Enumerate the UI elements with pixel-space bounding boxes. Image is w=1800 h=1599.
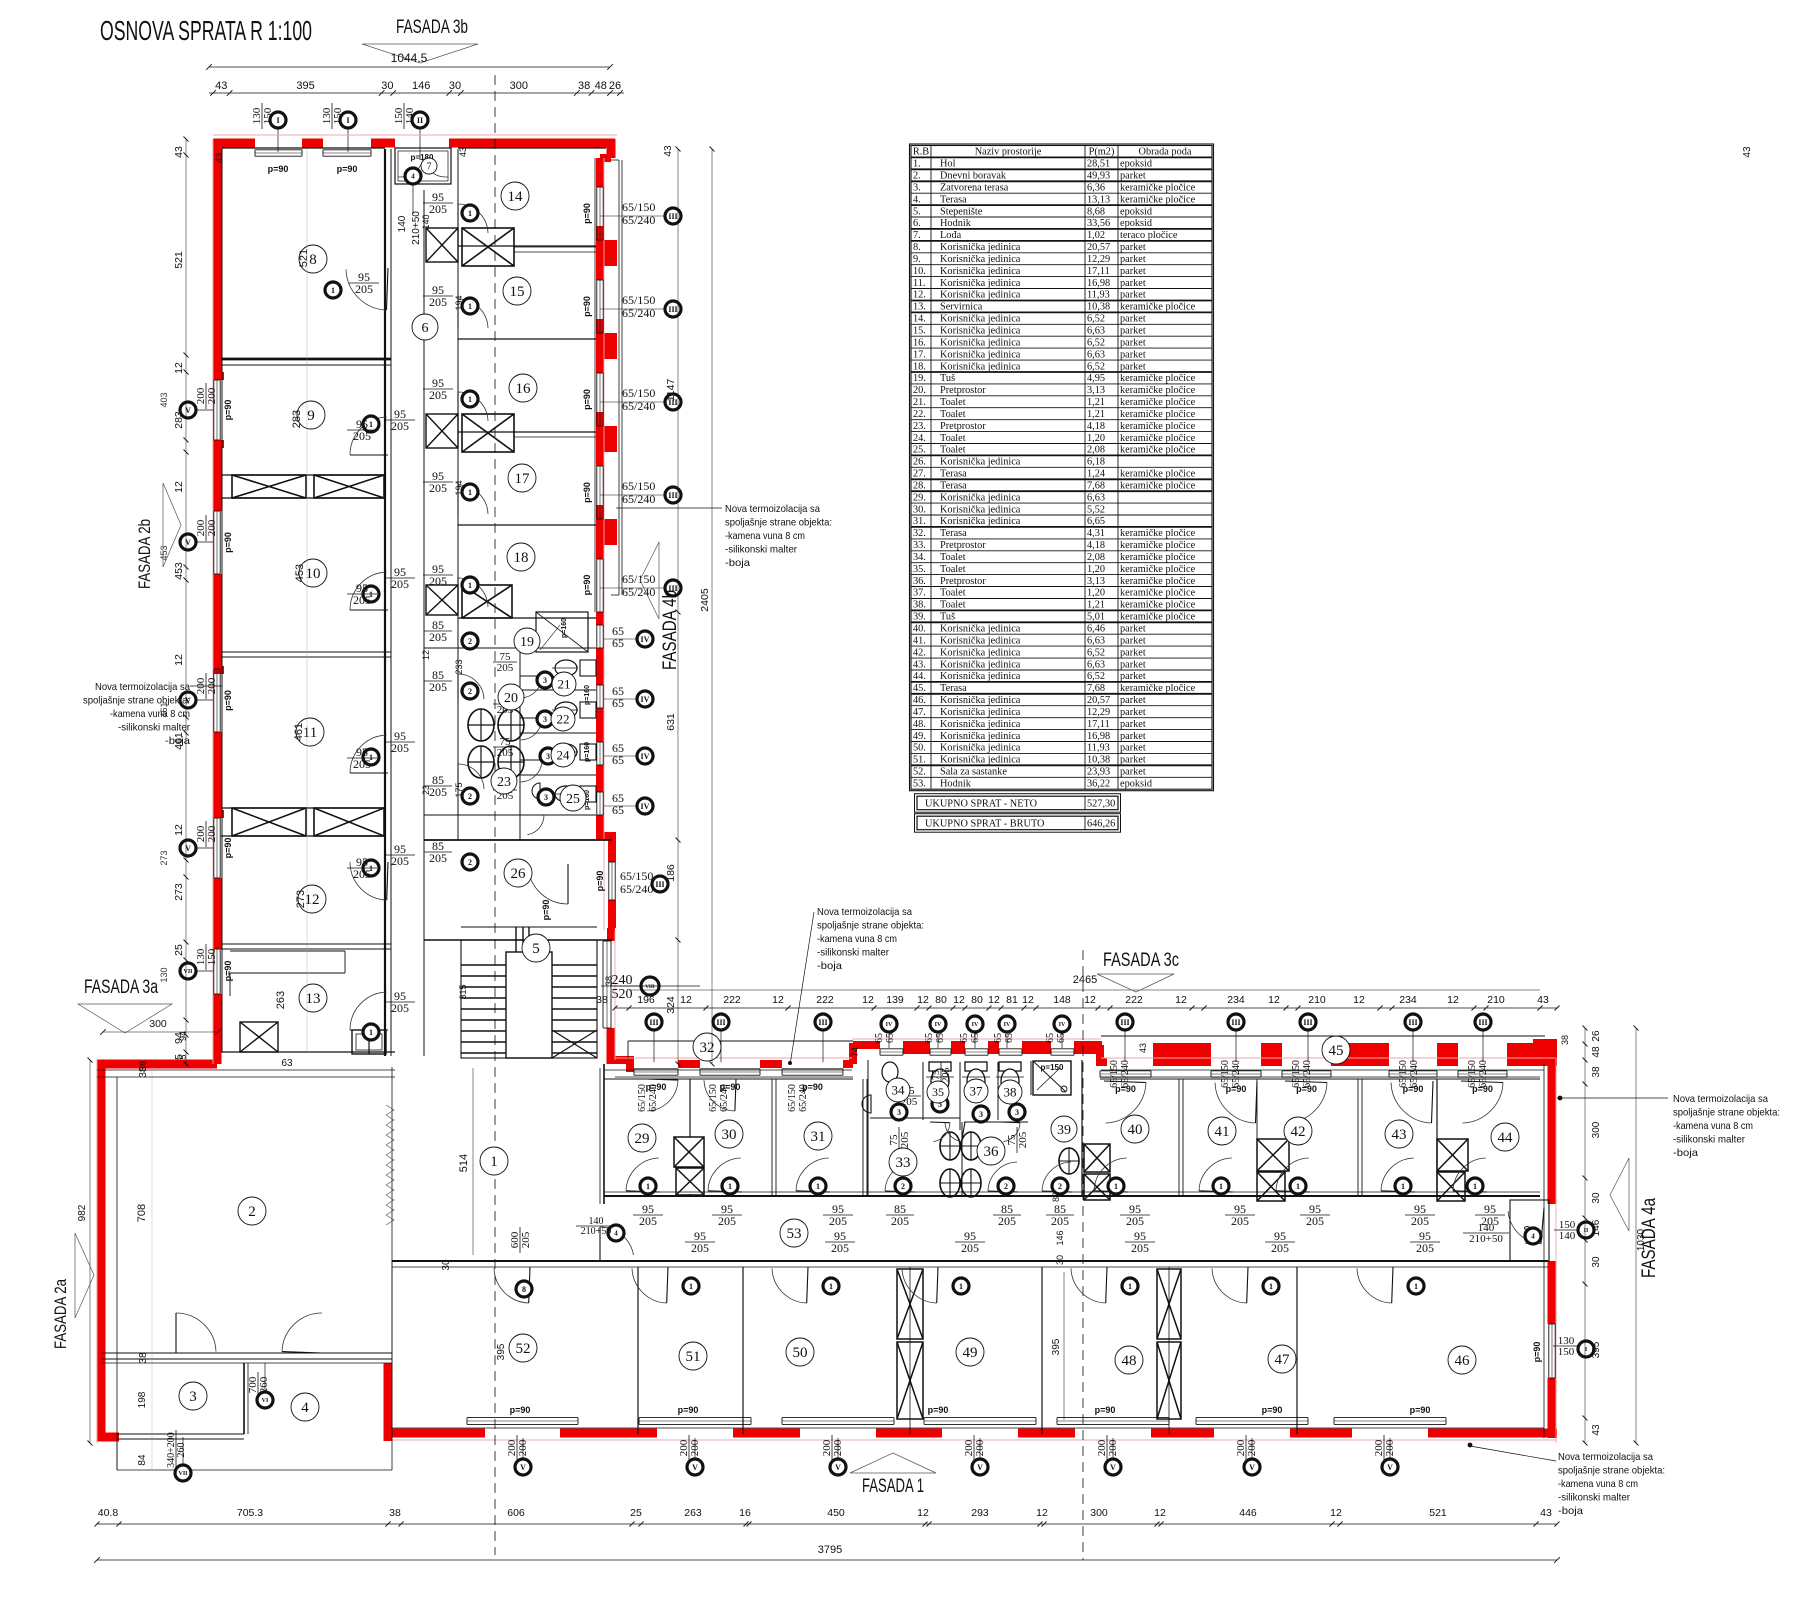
svg-text:521: 521: [173, 251, 185, 269]
wing top dim row: [615, 1007, 1557, 1009]
doors terrace 45 / east rooms: [1106, 1083, 1147, 1124]
svg-text:keramičke pločice: keramičke pločice: [1120, 564, 1196, 575]
svg-text:65/240: 65/240: [622, 213, 655, 227]
svg-text:6,52: 6,52: [1087, 671, 1105, 682]
svg-text:keramičke pločice: keramičke pločice: [1120, 433, 1196, 444]
svg-text:-kamena vuna 8 cm: -kamena vuna 8 cm: [817, 933, 897, 945]
svg-text:VII: VII: [178, 1471, 188, 1477]
svg-text:V: V: [692, 1463, 698, 1472]
svg-text:parket: parket: [1120, 314, 1146, 325]
door room23: [458, 764, 484, 789]
svg-text:205: 205: [1131, 1241, 1149, 1255]
svg-text:Hodnik: Hodnik: [940, 779, 972, 790]
svg-text:p=90: p=90: [582, 296, 592, 317]
svg-text:3795: 3795: [818, 1544, 842, 1556]
window marks III IV row: [646, 1014, 662, 1030]
window mark I: [270, 112, 286, 128]
svg-text:III: III: [1231, 1018, 1240, 1027]
svg-text:FASADA 1: FASADA 1: [862, 1476, 924, 1497]
room2/34 divider wall: [101, 1352, 392, 1354]
svg-text:1: 1: [490, 1154, 498, 1170]
door4 upper: [405, 168, 421, 184]
svg-text:FASADA 3b: FASADA 3b: [396, 17, 468, 38]
svg-text:Pretprostor: Pretprostor: [940, 421, 986, 432]
svg-text:16: 16: [516, 381, 532, 397]
svg-text:Nova termoizolacija sa: Nova termoizolacija sa: [95, 681, 190, 693]
svg-text:40: 40: [1128, 1122, 1143, 1138]
room5 circle: [522, 934, 550, 962]
svg-text:Korisnička jedinica: Korisnička jedinica: [940, 731, 1021, 742]
svg-text:Toalet: Toalet: [940, 445, 966, 456]
svg-text:6,52: 6,52: [1087, 314, 1105, 325]
svg-text:30: 30: [1055, 1255, 1065, 1265]
svg-text:31.: 31.: [913, 516, 926, 527]
svg-text:12,29: 12,29: [1087, 254, 1110, 265]
svg-text:205: 205: [718, 1214, 736, 1228]
svg-text:2: 2: [468, 637, 472, 646]
svg-text:273: 273: [159, 850, 169, 865]
svg-text:1: 1: [369, 420, 373, 429]
svg-text:UKUPNO SPRAT - NETO: UKUPNO SPRAT - NETO: [925, 799, 1038, 810]
terrace 45 outer edge: [1101, 1035, 1545, 1037]
room 7 circle: [421, 158, 437, 174]
svg-text:Korisnička jedinica: Korisnička jedinica: [940, 361, 1021, 372]
svg-text:keramičke pločice: keramičke pločice: [1120, 612, 1196, 623]
svg-text:-kamena vuna 8 cm: -kamena vuna 8 cm: [1673, 1120, 1753, 1132]
svg-text:210+50: 210+50: [1469, 1233, 1503, 1245]
svg-text:65/240: 65/240: [648, 1084, 659, 1112]
svg-text:50: 50: [793, 1345, 808, 1361]
wall: room13 bottom: [221, 1051, 395, 1053]
svg-text:p=90: p=90: [582, 389, 592, 410]
svg-text:28.: 28.: [913, 481, 926, 492]
svg-text:446: 446: [1239, 1507, 1257, 1519]
room1 axis dashed: [494, 75, 496, 1555]
window 46 east: [1548, 1324, 1550, 1378]
svg-text:V: V: [1110, 1463, 1116, 1472]
svg-text:-silikonski malter: -silikonski malter: [1673, 1134, 1745, 1146]
svg-text:Korisnička jedinica: Korisnička jedinica: [940, 671, 1021, 682]
door room13: [350, 992, 387, 1030]
svg-text:65/150: 65/150: [708, 1084, 719, 1112]
svg-text:65/240: 65/240: [622, 399, 655, 413]
svg-text:49,93: 49,93: [1087, 171, 1110, 182]
toilets rooms 21,22,24,25: [580, 660, 596, 676]
door room14-18: [458, 392, 488, 421]
door room52: [494, 1268, 529, 1303]
svg-text:65: 65: [874, 1033, 885, 1043]
svg-text:1044.5: 1044.5: [391, 51, 428, 65]
red wall: left wing bottom-left corner to room2: [97, 1060, 217, 1069]
svg-text:parket: parket: [1120, 242, 1146, 253]
svg-text:146: 146: [1591, 1219, 1602, 1236]
svg-text:parket: parket: [1120, 659, 1146, 670]
svg-text:65/240: 65/240: [1120, 1060, 1131, 1088]
svg-text:34.: 34.: [913, 552, 926, 563]
svg-text:6,63: 6,63: [1087, 326, 1105, 337]
svg-text:parket: parket: [1120, 624, 1146, 635]
svg-text:11,93: 11,93: [1087, 743, 1110, 754]
svg-text:205: 205: [429, 630, 447, 644]
svg-text:12: 12: [953, 994, 965, 1006]
svg-text:10.: 10.: [913, 266, 926, 277]
shaft 43|44: [1437, 1139, 1468, 1171]
VI door mark room4: [247, 1372, 270, 1398]
svg-text:12,29: 12,29: [1087, 707, 1110, 718]
svg-text:p=90: p=90: [223, 400, 233, 421]
svg-text:III: III: [668, 212, 677, 221]
svg-text:Korisnička jedinica: Korisnička jedinica: [940, 635, 1021, 646]
svg-text:205: 205: [1271, 1241, 1289, 1255]
svg-text:1147: 1147: [665, 379, 677, 402]
svg-text:epoksid: epoksid: [1120, 206, 1153, 217]
svg-text:200: 200: [206, 519, 218, 536]
svg-text:12: 12: [1268, 994, 1280, 1006]
svg-text:23.: 23.: [913, 421, 926, 432]
svg-text:7,68: 7,68: [1087, 683, 1105, 694]
svg-text:273: 273: [295, 890, 307, 908]
svg-text:26.: 26.: [913, 457, 926, 468]
svg-text:3: 3: [543, 676, 547, 685]
red wall: room4 east: [384, 1363, 393, 1441]
svg-text:1: 1: [689, 1282, 693, 1291]
svg-text:51.: 51.: [913, 755, 926, 766]
svg-text:146: 146: [412, 80, 430, 92]
stair window label 240/520: [601, 973, 643, 1002]
room circles wing: [628, 1124, 656, 1152]
svg-text:III: III: [655, 880, 664, 889]
svg-text:30: 30: [449, 80, 461, 92]
room19 shower: [536, 612, 588, 652]
svg-text:IV: IV: [641, 695, 650, 704]
svg-text:205: 205: [355, 282, 373, 296]
svg-text:37.: 37.: [913, 588, 926, 599]
svg-text:403: 403: [159, 392, 169, 407]
svg-text:parket: parket: [1120, 671, 1146, 682]
svg-text:205: 205: [391, 1001, 409, 1015]
svg-text:13,13: 13,13: [1087, 194, 1110, 205]
svg-text:130: 130: [159, 967, 169, 982]
svg-text:Korisnička jedinica: Korisnička jedinica: [940, 707, 1021, 718]
svg-text:p=160: p=160: [584, 742, 591, 762]
door room12: [350, 862, 387, 900]
axis dashed wing: [1082, 950, 1084, 1560]
svg-text:12: 12: [917, 994, 929, 1006]
svg-text:Korisnička jedinica: Korisnička jedinica: [940, 290, 1021, 301]
red wall tab: [596, 240, 617, 266]
wall: rooms9-10 xbox divider: [232, 475, 306, 498]
svg-text:200: 200: [206, 825, 218, 842]
svg-text:Korisnička jedinica: Korisnička jedinica: [940, 254, 1021, 265]
svg-text:65/240: 65/240: [719, 1084, 730, 1112]
red wall: wing bottom: [392, 1429, 485, 1438]
red wall: left wing west: [213, 139, 222, 380]
svg-text:205: 205: [1306, 1214, 1324, 1228]
svg-text:6,18: 6,18: [1087, 457, 1105, 468]
shaft 40: [1257, 1139, 1289, 1171]
svg-text:16: 16: [739, 1507, 751, 1519]
svg-text:44: 44: [1498, 1130, 1514, 1146]
svg-text:65/150: 65/150: [1467, 1060, 1478, 1088]
svg-text:Terasa: Terasa: [940, 683, 967, 694]
svg-text:205: 205: [429, 851, 447, 865]
svg-text:14.: 14.: [913, 314, 926, 325]
svg-text:39.: 39.: [913, 612, 926, 623]
dim 1030: [1635, 1028, 1637, 1443]
svg-text:-boja: -boja: [1673, 1147, 1698, 1159]
rooms14-18 dividers: [458, 245, 596, 247]
svg-text:1: 1: [369, 1028, 373, 1037]
svg-text:11,93: 11,93: [1087, 290, 1110, 301]
svg-text:1,20: 1,20: [1087, 588, 1105, 599]
svg-text:20.: 20.: [913, 385, 926, 396]
svg-text:Hol: Hol: [940, 159, 956, 170]
west window marks V: [180, 402, 196, 418]
svg-text:65/150: 65/150: [1109, 1060, 1120, 1088]
svg-text:IV: IV: [641, 752, 650, 761]
svg-text:IV: IV: [641, 802, 650, 811]
insulation hairline wing: [615, 1057, 852, 1059]
svg-text:parket: parket: [1120, 755, 1146, 766]
svg-text:1: 1: [1401, 1182, 1405, 1191]
svg-text:parket: parket: [1120, 254, 1146, 265]
svg-text:2: 2: [468, 792, 472, 801]
svg-text:Servirnica: Servirnica: [940, 302, 983, 313]
svg-text:spoljašnje strane objekta:: spoljašnje strane objekta:: [83, 695, 190, 707]
svg-text:205: 205: [1126, 1214, 1144, 1228]
room19 divider + shaft: [426, 585, 458, 615]
svg-text:parket: parket: [1120, 290, 1146, 301]
svg-text:p=90: p=90: [268, 164, 289, 174]
right outer dim column: [1584, 1028, 1586, 1443]
svg-text:65: 65: [924, 1033, 935, 1043]
svg-text:7.: 7.: [913, 230, 921, 241]
svg-text:263: 263: [275, 991, 287, 1009]
svg-text:38: 38: [604, 976, 614, 986]
red wall: wing top east raised piers: [1153, 1043, 1211, 1066]
left wing room circles: [299, 245, 327, 273]
svg-text:1,20: 1,20: [1087, 433, 1105, 444]
svg-text:V: V: [1249, 1463, 1255, 1472]
svg-text:keramičke pločice: keramičke pločice: [1120, 385, 1196, 396]
svg-text:38: 38: [1560, 1035, 1570, 1045]
svg-text:205: 205: [1481, 1214, 1499, 1228]
svg-text:49: 49: [963, 1345, 978, 1361]
svg-text:parket: parket: [1120, 743, 1146, 754]
svg-text:38: 38: [1004, 1085, 1017, 1100]
door room14-18: [458, 204, 488, 233]
svg-text:38: 38: [1591, 1066, 1602, 1078]
west wall windows: [213, 380, 215, 440]
svg-text:keramičke pločice: keramičke pločice: [1120, 445, 1196, 456]
svg-text:17,11: 17,11: [1087, 266, 1110, 277]
svg-text:Korisnička jedinica: Korisnička jedinica: [940, 349, 1021, 360]
svg-text:p=160: p=160: [584, 685, 591, 705]
svg-text:4: 4: [301, 1400, 309, 1416]
svg-text:51: 51: [686, 1349, 701, 1365]
svg-text:29.: 29.: [913, 492, 926, 503]
svg-text:10: 10: [306, 566, 321, 582]
door room9: [350, 417, 387, 455]
svg-text:23,93: 23,93: [1087, 767, 1110, 778]
svg-text:48: 48: [1591, 1046, 1602, 1058]
svg-text:461: 461: [293, 723, 305, 741]
svg-text:20: 20: [504, 691, 518, 706]
svg-text:Toalet: Toalet: [940, 552, 966, 563]
svg-text:982: 982: [77, 1204, 88, 1221]
svg-text:33.: 33.: [913, 540, 926, 551]
svg-text:30: 30: [1591, 1256, 1602, 1268]
svg-text:395: 395: [1051, 1338, 1062, 1355]
dimension 1044.5: [209, 66, 610, 68]
svg-text:705.3: 705.3: [237, 1507, 263, 1519]
svg-text:395: 395: [496, 1343, 507, 1360]
svg-text:parket: parket: [1120, 326, 1146, 337]
svg-text:45: 45: [1329, 1043, 1344, 1059]
room4 bottom edge: [117, 1469, 392, 1471]
svg-text:41.: 41.: [913, 635, 926, 646]
svg-text:21: 21: [558, 677, 571, 692]
svg-text:1,24: 1,24: [1087, 469, 1105, 480]
wall: room8 divider: [221, 358, 391, 361]
svg-text:keramičke pločice: keramičke pločice: [1120, 552, 1196, 563]
svg-text:p=90: p=90: [1410, 1405, 1431, 1415]
svg-text:12: 12: [772, 994, 784, 1006]
svg-text:IV: IV: [886, 1022, 893, 1028]
svg-text:84: 84: [137, 1454, 148, 1466]
svg-text:4,31: 4,31: [1087, 528, 1105, 539]
svg-text:12: 12: [173, 654, 185, 666]
wall hatch near room2: [386, 1105, 394, 1115]
svg-text:III: III: [1120, 1018, 1129, 1027]
svg-text:65/240: 65/240: [1302, 1060, 1313, 1088]
svg-text:1: 1: [1128, 1282, 1132, 1291]
svg-text:80: 80: [971, 994, 983, 1006]
wall: room26 top: [424, 839, 612, 841]
wash ovals room 23: [468, 709, 494, 741]
svg-text:81: 81: [1006, 994, 1018, 1006]
svg-text:20,57: 20,57: [1087, 242, 1110, 253]
svg-text:IV: IV: [972, 1022, 979, 1028]
svg-text:-silikonski malter: -silikonski malter: [725, 544, 797, 556]
svg-text:205: 205: [1411, 1214, 1429, 1228]
svg-text:parket: parket: [1120, 719, 1146, 730]
svg-text:65: 65: [970, 1033, 981, 1043]
svg-text:205: 205: [353, 593, 371, 607]
svg-text:4.: 4.: [913, 194, 921, 205]
svg-text:5,52: 5,52: [1087, 504, 1105, 515]
svg-text:spoljašnje strane objekta:: spoljašnje strane objekta:: [725, 517, 832, 529]
svg-text:1: 1: [468, 302, 472, 311]
svg-text:646,26: 646,26: [1087, 819, 1115, 830]
svg-text:300: 300: [149, 1018, 167, 1030]
sink room34: [862, 1095, 871, 1113]
svg-text:12: 12: [1175, 994, 1187, 1006]
wing east inner wall: [1543, 1064, 1545, 1438]
svg-text:23: 23: [497, 775, 511, 790]
svg-text:205: 205: [497, 662, 514, 674]
east small windows 19-25: [596, 625, 598, 648]
svg-text:65/240: 65/240: [622, 585, 655, 599]
svg-text:43: 43: [214, 153, 224, 163]
svg-text:43: 43: [215, 80, 227, 92]
dimension row top: [209, 92, 624, 94]
svg-text:Toalet: Toalet: [940, 433, 966, 444]
svg-text:65/150: 65/150: [620, 869, 653, 883]
svg-text:17,11: 17,11: [1087, 719, 1110, 730]
svg-text:Korisnička jedinica: Korisnička jedinica: [940, 755, 1021, 766]
svg-text:1: 1: [331, 286, 335, 295]
east facade balcony line: [618, 160, 620, 595]
svg-text:1: 1: [1414, 1282, 1418, 1291]
svg-text:FASADA 4a: FASADA 4a: [1639, 1198, 1660, 1278]
svg-text:1: 1: [468, 488, 472, 497]
svg-text:FASADA 4b: FASADA 4b: [660, 590, 681, 670]
room2 interior lines: [116, 1077, 118, 1470]
red wall: wing east: [1548, 1060, 1557, 1204]
svg-text:25: 25: [566, 792, 580, 807]
svg-text:48: 48: [595, 80, 607, 92]
svg-text:1,02: 1,02: [1087, 230, 1105, 241]
door room14-18: [458, 299, 488, 328]
svg-text:keramičke pločice: keramičke pločice: [1120, 469, 1196, 480]
svg-text:52: 52: [516, 1341, 531, 1357]
svg-text:53: 53: [787, 1226, 802, 1242]
svg-text:Korisnička jedinica: Korisnička jedinica: [940, 278, 1021, 289]
insulation hairline left wing: [213, 134, 617, 136]
svg-text:22.: 22.: [913, 409, 926, 420]
svg-text:38: 38: [389, 1507, 401, 1519]
svg-text:UKUPNO SPRAT - BRUTO: UKUPNO SPRAT - BRUTO: [925, 819, 1045, 830]
svg-text:46: 46: [1455, 1353, 1471, 1369]
svg-text:3: 3: [544, 793, 548, 802]
svg-text:spoljašnje strane objekta:: spoljašnje strane objekta:: [1558, 1465, 1665, 1477]
svg-text:395: 395: [1591, 1341, 1602, 1358]
svg-text:6,63: 6,63: [1087, 659, 1105, 670]
svg-text:II: II: [417, 116, 423, 125]
svg-text:205: 205: [831, 1241, 849, 1255]
svg-text:Nova termoizolacija sa: Nova termoizolacija sa: [725, 503, 820, 515]
red wall: left wing top: [213, 139, 255, 148]
svg-text:2: 2: [901, 1182, 905, 1191]
svg-text:epoksid: epoksid: [1120, 218, 1153, 229]
left wing outer dim column: [185, 139, 187, 1064]
svg-text:Pretprostor: Pretprostor: [940, 540, 986, 551]
svg-text:p=90: p=90: [223, 690, 233, 711]
svg-text:4,95: 4,95: [1087, 373, 1105, 384]
red wall: wing top east corner block: [1533, 1039, 1557, 1066]
svg-text:205: 205: [941, 1068, 952, 1083]
svg-text:Korisnička jedinica: Korisnička jedinica: [940, 457, 1021, 468]
red wall: left wing west jogs: [213, 372, 224, 380]
svg-text:43: 43: [1591, 1424, 1602, 1436]
svg-text:65/150: 65/150: [622, 479, 655, 493]
svg-text:keramičke pločice: keramičke pločice: [1120, 373, 1196, 384]
wall: corridor6 east x=424: [423, 190, 425, 1056]
svg-text:33: 33: [896, 1155, 911, 1171]
svg-text:1,20: 1,20: [1087, 564, 1105, 575]
svg-text:196: 196: [637, 994, 655, 1006]
svg-text:205: 205: [891, 1214, 909, 1228]
svg-text:3: 3: [189, 1389, 197, 1405]
svg-text:5: 5: [532, 941, 540, 957]
wall: rooms12-13 divider: [221, 943, 391, 945]
svg-text:2: 2: [468, 687, 472, 696]
svg-text:1: 1: [1114, 1182, 1118, 1191]
svg-text:140: 140: [404, 107, 416, 124]
svg-text:273: 273: [173, 883, 185, 901]
svg-text:514: 514: [458, 1154, 470, 1172]
